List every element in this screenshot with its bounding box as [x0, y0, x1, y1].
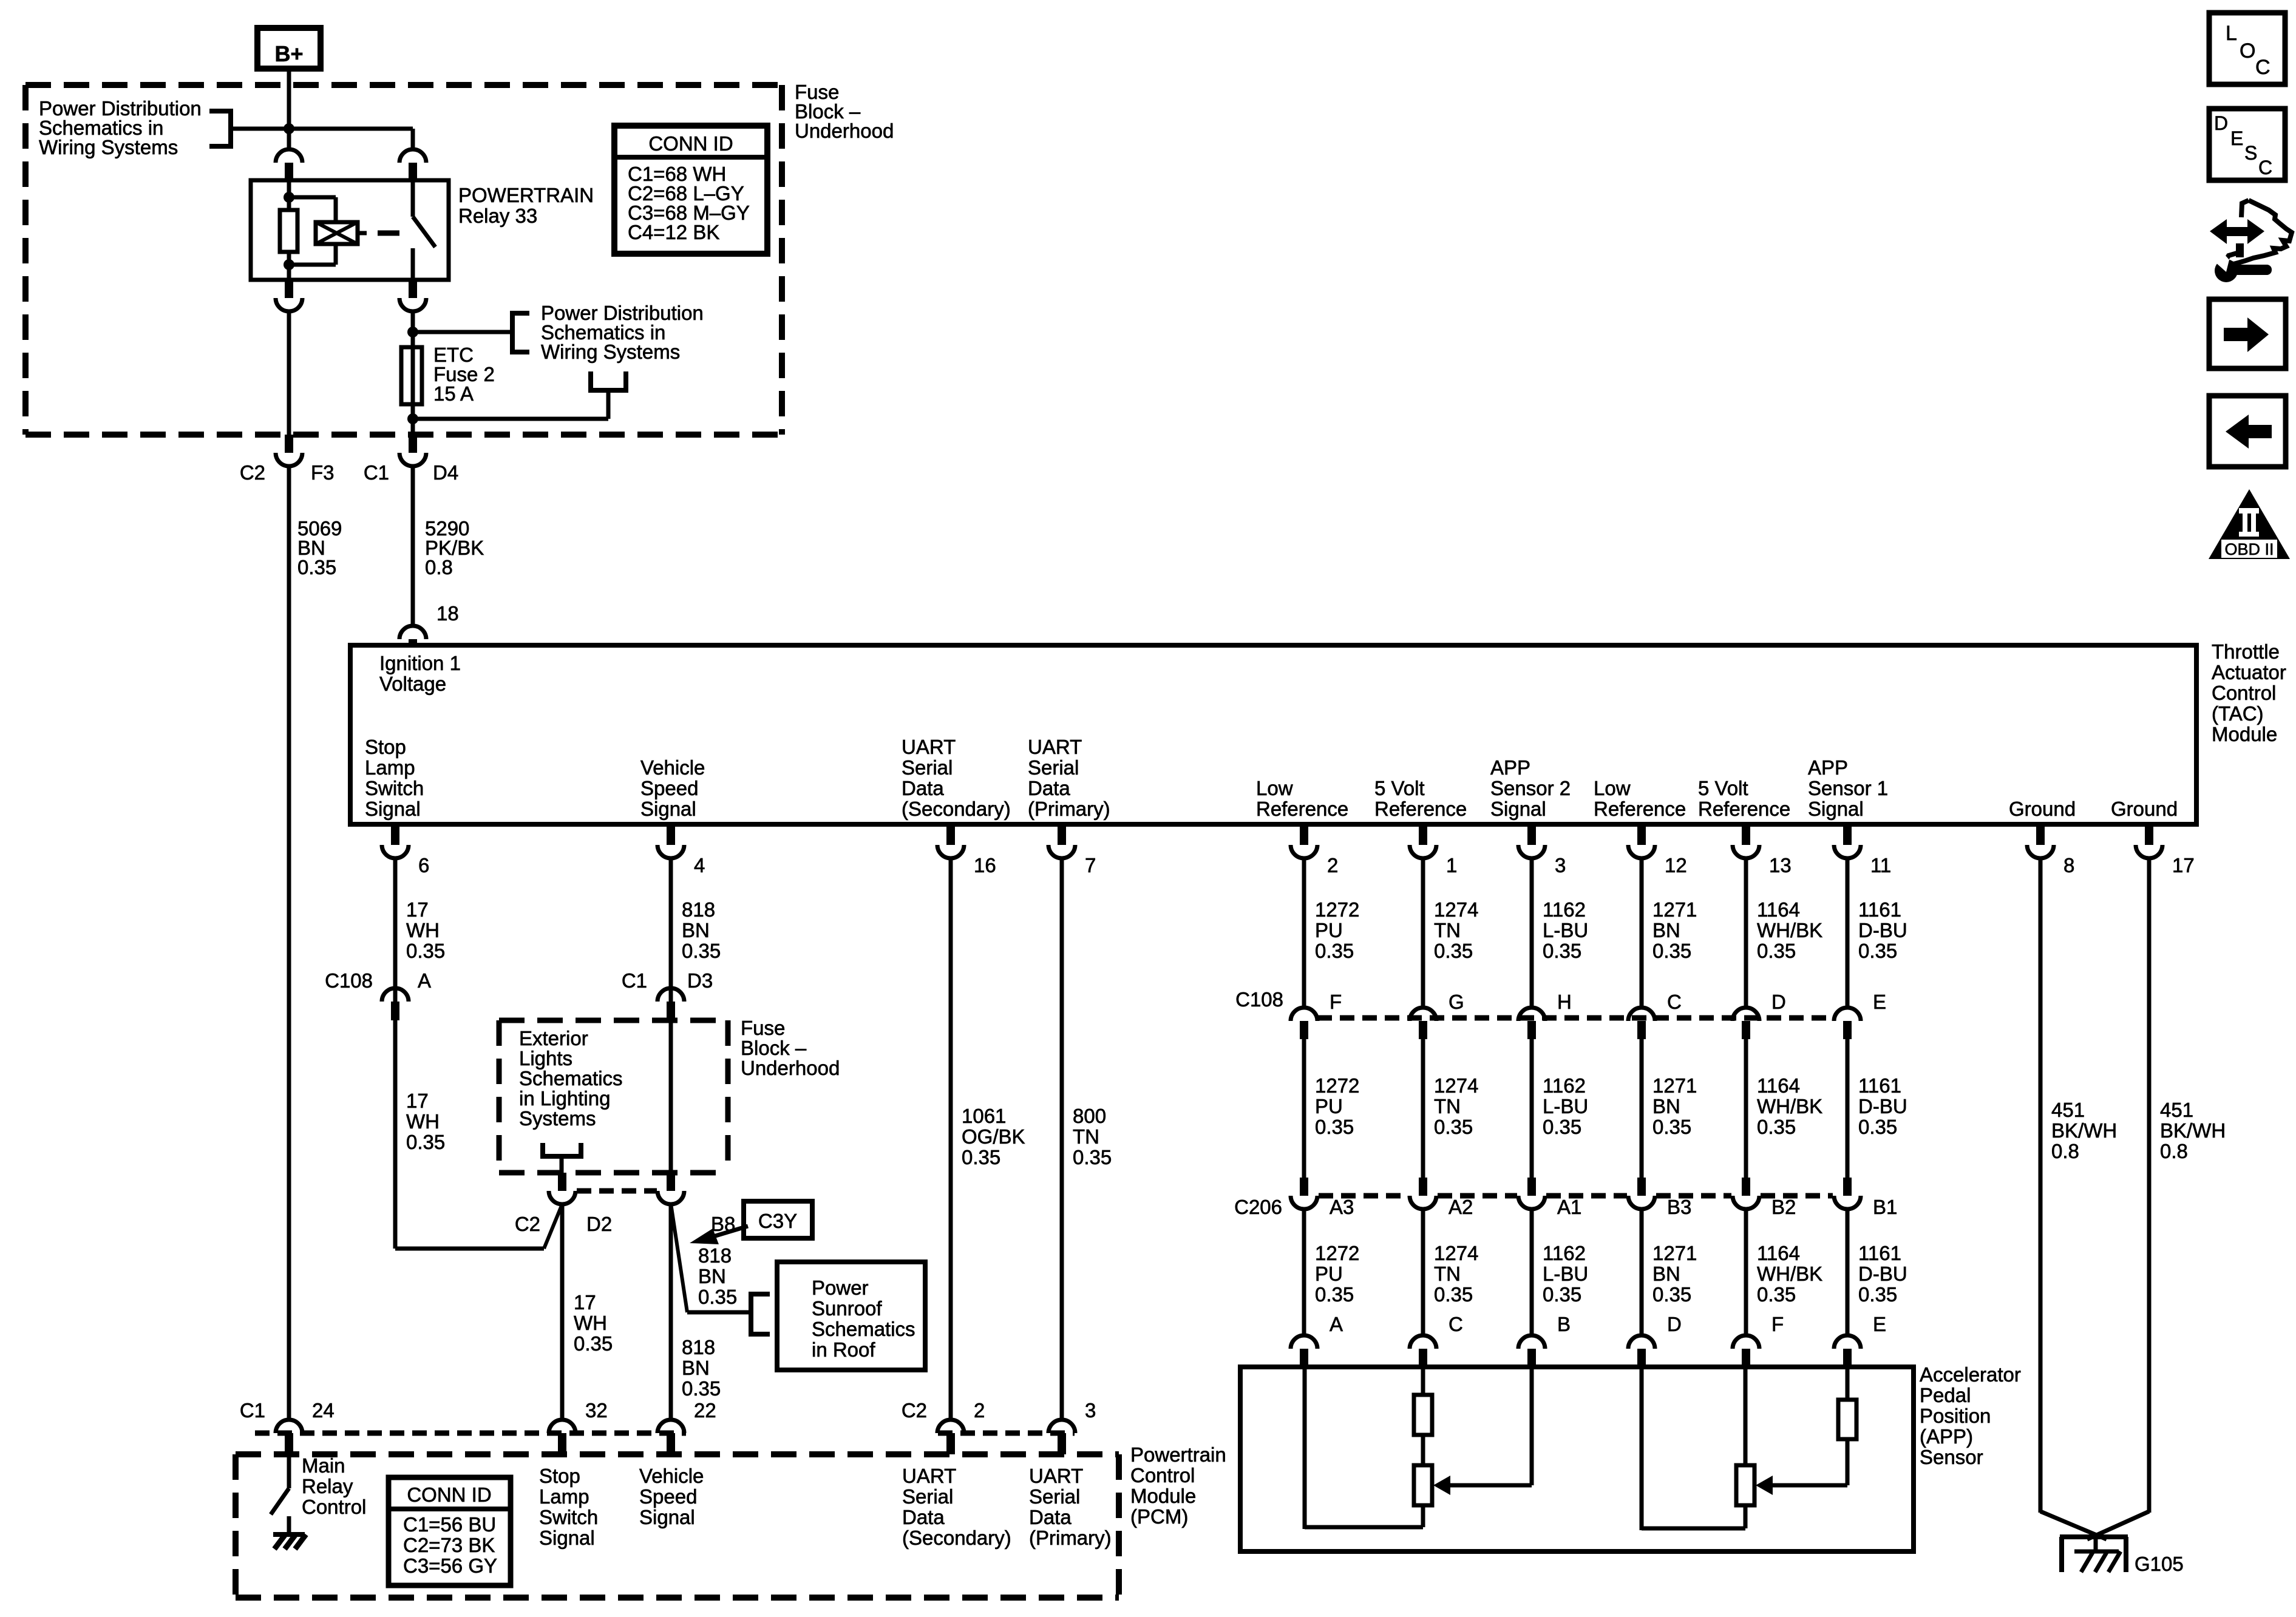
wire col 3043 to C206 — [1846, 1039, 1850, 1178]
svg-text:L: L — [2226, 22, 2237, 45]
svg-text:OBD II: OBD II — [2224, 540, 2274, 558]
svg-text:(TAC): (TAC) — [2212, 702, 2264, 725]
svg-text:11: 11 — [1870, 854, 1891, 876]
svg-text:A2: A2 — [1449, 1196, 1473, 1218]
svg-text:17: 17 — [406, 898, 429, 921]
svg-text:0.35: 0.35 — [1434, 1116, 1473, 1138]
svg-text:Reference: Reference — [1374, 798, 1467, 820]
svg-text:1161: 1161 — [1858, 1242, 1901, 1264]
svg-text:D-BU: D-BU — [1858, 1263, 1907, 1285]
svg-text:C108: C108 — [1235, 988, 1283, 1011]
svg-text:1164: 1164 — [1757, 898, 1800, 921]
svg-text:Data: Data — [1029, 1506, 1072, 1528]
svg-text:Throttle: Throttle — [2212, 640, 2280, 663]
svg-text:E: E — [1873, 1313, 1886, 1335]
svg-text:Signal: Signal — [1808, 798, 1864, 820]
svg-text:(Primary): (Primary) — [1029, 1527, 1112, 1549]
C3Y connector callout box — [744, 1201, 812, 1238]
svg-text:B3: B3 — [1667, 1196, 1691, 1218]
wire col 2344 to C108 — [1421, 857, 1425, 1009]
svg-text:1274: 1274 — [1434, 1242, 1478, 1264]
double arrow — [2223, 227, 2252, 236]
svg-text:0.35: 0.35 — [1757, 1283, 1796, 1306]
wire col 3043 to APP sensor — [1846, 1208, 1850, 1335]
power sunroof schematics box — [777, 1262, 925, 1370]
svg-text:0.35: 0.35 — [1434, 1283, 1473, 1306]
wire B8 branch to sunroof — [671, 1204, 687, 1312]
svg-text:2: 2 — [974, 1399, 985, 1422]
svg-text:D: D — [1667, 1313, 1682, 1335]
svg-text:POWERTRAIN: POWERTRAIN — [458, 184, 594, 206]
wire vehicle speed down to PCM pin 22 — [669, 1204, 673, 1420]
svg-text:Lights: Lights — [519, 1047, 572, 1070]
svg-text:1272: 1272 — [1315, 898, 1359, 921]
svg-text:Sunroof: Sunroof — [812, 1297, 882, 1320]
svg-text:B+: B+ — [274, 41, 303, 66]
icon DESC box — [2209, 109, 2285, 180]
bracket under middle note — [591, 371, 626, 390]
svg-text:(Secondary): (Secondary) — [902, 1527, 1011, 1549]
relay switch contact — [411, 180, 415, 217]
svg-text:Accelerator: Accelerator — [1920, 1363, 2021, 1386]
svg-text:1274: 1274 — [1434, 898, 1478, 921]
svg-text:UART: UART — [1028, 736, 1082, 758]
svg-text:0.35: 0.35 — [1315, 940, 1354, 962]
node junction to power distribution note — [407, 327, 418, 337]
svg-text:7: 7 — [1085, 854, 1096, 876]
svg-text:Module: Module — [2212, 723, 2277, 745]
svg-text:0.35: 0.35 — [682, 1377, 721, 1400]
svg-text:Serial: Serial — [902, 1485, 953, 1508]
battery feed B+ terminal — [257, 28, 321, 69]
wire col 2704 to C108 — [1640, 857, 1644, 1009]
wire col 2148 to C206 — [1302, 1039, 1306, 1178]
svg-text:1162: 1162 — [1543, 1074, 1586, 1097]
connector PCM pin 22 — [657, 1420, 684, 1433]
svg-text:C3Y: C3Y — [758, 1210, 797, 1232]
connector APP sensor pin F — [1733, 1335, 1759, 1349]
arrow from C3Y to wire — [712, 1226, 748, 1237]
svg-text:0.35: 0.35 — [406, 1131, 445, 1153]
svg-text:BK/WH: BK/WH — [2160, 1119, 2226, 1142]
svg-text:Lamp: Lamp — [539, 1485, 589, 1508]
connector C2 D2 out of exterior lights box — [558, 1173, 566, 1191]
svg-text:8: 8 — [2063, 854, 2074, 876]
svg-text:1272: 1272 — [1315, 1242, 1359, 1264]
svg-text:CONN ID: CONN ID — [648, 132, 733, 155]
svg-text:13: 13 — [1769, 854, 1792, 876]
svg-text:0.35: 0.35 — [1315, 1283, 1354, 1306]
svg-text:Position: Position — [1920, 1405, 1991, 1427]
svg-text:A: A — [1330, 1313, 1343, 1335]
svg-text:Data: Data — [902, 1506, 945, 1528]
svg-text:0.35: 0.35 — [1858, 1116, 1897, 1138]
APP sensor 1 circuit (right) — [1744, 1369, 1748, 1465]
TAC module box — [350, 645, 2196, 824]
svg-text:G105: G105 — [2135, 1553, 2184, 1575]
svg-text:(Primary): (Primary) — [1028, 798, 1110, 820]
connector TAC pin 13 — [1742, 827, 1750, 845]
wire relay left down to fuse box edge — [287, 311, 291, 435]
svg-text:Reference: Reference — [1698, 798, 1790, 820]
wire pin 4 down — [669, 857, 673, 1008]
resistor (relay internal) — [280, 210, 297, 252]
svg-text:D4: D4 — [433, 461, 458, 484]
svg-text:Switch: Switch — [539, 1506, 598, 1528]
connector APP sensor pin E — [1834, 1335, 1861, 1349]
svg-text:0.35: 0.35 — [574, 1332, 613, 1355]
svg-text:Systems: Systems — [519, 1107, 596, 1130]
svg-text:Lamp: Lamp — [365, 756, 415, 779]
connector C206 pin B2 — [1742, 1178, 1750, 1196]
relay POWERTRAIN Relay 33 box — [251, 180, 449, 280]
svg-text:0.35: 0.35 — [1652, 1283, 1691, 1306]
svg-text:Stop: Stop — [365, 736, 406, 758]
PCM dashed box — [236, 1451, 1119, 1457]
svg-text:Serial: Serial — [1028, 756, 1079, 779]
svg-text:Low: Low — [1256, 777, 1293, 799]
svg-text:Fuse: Fuse — [741, 1017, 785, 1039]
wire col 2344 to C206 — [1421, 1039, 1425, 1178]
svg-text:D-BU: D-BU — [1858, 919, 1907, 941]
connector C108 pin F — [1291, 1008, 1317, 1021]
svg-text:in Roof: in Roof — [812, 1338, 875, 1361]
connector C206 pin A3 — [1300, 1178, 1308, 1196]
fuse ETC Fuse 2 15A — [401, 347, 422, 404]
svg-text:PU: PU — [1315, 1263, 1343, 1285]
svg-text:24: 24 — [312, 1399, 335, 1422]
svg-text:16: 16 — [974, 854, 996, 876]
connector out of relay right pin 87 — [409, 280, 417, 298]
svg-text:in Lighting: in Lighting — [519, 1087, 610, 1110]
svg-text:Voltage: Voltage — [379, 673, 446, 695]
svg-text:C2: C2 — [240, 461, 265, 484]
connector C206 pin B1 — [1843, 1178, 1852, 1196]
svg-text:WH/BK: WH/BK — [1757, 919, 1822, 941]
svg-text:1: 1 — [1446, 854, 1457, 876]
svg-text:B2: B2 — [1771, 1196, 1796, 1218]
svg-text:0.35: 0.35 — [1315, 1116, 1354, 1138]
connector B8 out of fuse block — [667, 1173, 675, 1191]
svg-text:1274: 1274 — [1434, 1074, 1478, 1097]
svg-text:Wiring Systems: Wiring Systems — [39, 136, 178, 158]
connector PCM pin 24 — [276, 1420, 302, 1433]
wire C2 F3 long down to PCM — [287, 466, 291, 1420]
connector into TAC pin 18 — [399, 626, 426, 639]
svg-text:Underhood: Underhood — [795, 120, 894, 142]
svg-text:D-BU: D-BU — [1858, 1095, 1907, 1117]
svg-text:(Secondary): (Secondary) — [902, 798, 1011, 820]
connector PCM pin 2 — [937, 1420, 964, 1433]
svg-text:L-BU: L-BU — [1543, 1263, 1588, 1285]
svg-text:17: 17 — [2172, 854, 2195, 876]
connector C206 pin A2 — [1419, 1178, 1427, 1196]
bracket to power distribution note (second) — [512, 313, 529, 352]
connector C108 pin D — [1733, 1008, 1759, 1021]
CONN ID table (PCM) — [389, 1477, 511, 1585]
svg-text:WH/BK: WH/BK — [1757, 1095, 1822, 1117]
chassis ground (main relay) — [273, 1532, 305, 1537]
svg-text:B: B — [1557, 1313, 1571, 1335]
svg-text:1061: 1061 — [962, 1105, 1006, 1127]
svg-text:C2=73 BK: C2=73 BK — [403, 1534, 495, 1556]
svg-text:F3: F3 — [311, 461, 335, 484]
svg-text:WH: WH — [406, 919, 440, 941]
svg-text:0.35: 0.35 — [1543, 940, 1581, 962]
connector TAC pin 16 — [946, 827, 955, 845]
svg-text:Control: Control — [2212, 682, 2276, 704]
connector C108 pin E — [1834, 1008, 1861, 1021]
svg-text:Exterior: Exterior — [519, 1027, 588, 1049]
bracket to note — [209, 111, 231, 146]
bracket to power sunroof — [751, 1294, 770, 1334]
svg-text:BN: BN — [682, 1357, 710, 1379]
node junction B+ branch — [284, 123, 294, 134]
svg-text:Reference: Reference — [1594, 798, 1686, 820]
svg-text:WH: WH — [574, 1312, 607, 1334]
connector C206 pin A1 — [1527, 1178, 1536, 1196]
svg-text:1271: 1271 — [1652, 1242, 1697, 1264]
svg-text:D: D — [1771, 991, 1786, 1013]
svg-text:Ground: Ground — [2009, 798, 2076, 820]
connector C108 pin G — [1410, 1008, 1436, 1021]
svg-text:C4=12 BK: C4=12 BK — [628, 221, 719, 243]
APP sensor 2 circuit (left) — [1421, 1369, 1425, 1395]
wire pin 16 down to PCM — [949, 857, 953, 1420]
wire branch to relay switch side — [289, 127, 413, 131]
connector APP sensor pin D — [1628, 1335, 1655, 1349]
wire col 2523 to APP sensor — [1530, 1208, 1534, 1335]
svg-text:Reference: Reference — [1256, 798, 1348, 820]
svg-text:C: C — [2255, 56, 2271, 79]
wire col 2523 to C206 — [1530, 1039, 1534, 1178]
svg-text:0.35: 0.35 — [1757, 940, 1796, 962]
svg-text:C2: C2 — [515, 1213, 540, 1235]
svg-text:L-BU: L-BU — [1543, 1095, 1588, 1117]
svg-text:Sensor: Sensor — [1920, 1446, 1983, 1468]
svg-text:Signal: Signal — [1490, 798, 1546, 820]
svg-text:Control: Control — [302, 1496, 366, 1518]
svg-text:Sensor 1: Sensor 1 — [1808, 777, 1888, 799]
exterior lights dashed box (fuse block underhood) — [499, 1018, 728, 1023]
wire col 2876 to APP sensor — [1744, 1208, 1748, 1335]
svg-text:1272: 1272 — [1315, 1074, 1359, 1097]
svg-text:0.35: 0.35 — [297, 556, 336, 578]
svg-text:18: 18 — [436, 602, 459, 625]
svg-text:Schematics: Schematics — [812, 1318, 915, 1340]
svg-text:(APP): (APP) — [1920, 1425, 1973, 1448]
svg-text:Signal: Signal — [365, 798, 421, 820]
connector TAC pin 17 — [2145, 827, 2153, 845]
connector APP sensor pin C — [1410, 1335, 1436, 1349]
svg-text:D2: D2 — [586, 1213, 612, 1235]
connector into relay left pin 86 — [276, 149, 302, 163]
svg-text:Signal: Signal — [539, 1527, 595, 1549]
svg-text:Serial: Serial — [902, 756, 953, 779]
wire pin 8 ground down — [2039, 857, 2043, 1513]
svg-text:BN: BN — [1652, 919, 1680, 941]
resistor (APP sensor 1) — [1838, 1400, 1856, 1439]
wire col 2148 to C108 — [1302, 857, 1306, 1009]
svg-text:PU: PU — [1315, 919, 1343, 941]
svg-text:451: 451 — [2160, 1099, 2193, 1121]
wire B+ down — [287, 72, 291, 130]
connector C1 D3 (vehicle speed into fuse block) — [657, 988, 684, 1002]
svg-text:Stop: Stop — [539, 1465, 580, 1487]
connector out of fuse block C1 D4 — [409, 435, 417, 453]
connector C108 A (stop lamp) — [382, 988, 409, 1002]
svg-text:Data: Data — [1028, 777, 1070, 799]
svg-text:1161: 1161 — [1858, 1074, 1901, 1097]
svg-text:Control: Control — [1130, 1464, 1195, 1486]
svg-text:C206: C206 — [1234, 1196, 1282, 1218]
svg-text:APP: APP — [1808, 756, 1848, 779]
svg-text:0.35: 0.35 — [1543, 1116, 1581, 1138]
svg-text:F: F — [1330, 991, 1342, 1013]
connector TAC pin 4 — [667, 827, 675, 845]
svg-text:TN: TN — [1434, 919, 1461, 941]
svg-text:TN: TN — [1434, 1095, 1461, 1117]
svg-text:C2: C2 — [902, 1399, 927, 1422]
svg-text:Block –: Block – — [741, 1037, 807, 1059]
svg-text:C1=56 BU: C1=56 BU — [403, 1513, 496, 1536]
svg-text:1161: 1161 — [1858, 898, 1901, 921]
relay coil symbol — [316, 222, 358, 244]
wire col 2876 to C108 — [1744, 857, 1748, 1009]
svg-text:Actuator: Actuator — [2212, 661, 2286, 683]
svg-text:Serial: Serial — [1029, 1485, 1080, 1508]
connector TAC pin 1 — [1419, 827, 1427, 845]
connector C108 pin C — [1628, 1008, 1655, 1021]
svg-text:Relay: Relay — [302, 1475, 353, 1497]
svg-text:S: S — [2244, 142, 2257, 164]
svg-text:17: 17 — [406, 1090, 429, 1112]
svg-text:0.35: 0.35 — [1858, 1283, 1897, 1306]
svg-text:Ignition 1: Ignition 1 — [379, 652, 461, 674]
svg-text:0.8: 0.8 — [2051, 1140, 2079, 1162]
thumb piece — [2236, 243, 2244, 257]
svg-text:C: C — [1449, 1313, 1463, 1335]
svg-text:Main: Main — [302, 1454, 345, 1477]
svg-text:800: 800 — [1073, 1105, 1106, 1127]
svg-text:Powertrain: Powertrain — [1130, 1443, 1226, 1466]
CONN ID table (fuse block) — [614, 126, 767, 254]
svg-text:0.35: 0.35 — [406, 940, 445, 962]
wire col 2523 to C108 — [1530, 857, 1534, 1009]
svg-text:17: 17 — [574, 1291, 596, 1314]
svg-text:0.35: 0.35 — [682, 940, 721, 962]
svg-text:TN: TN — [1073, 1125, 1099, 1148]
svg-text:Pedal: Pedal — [1920, 1384, 1971, 1406]
ground wires converge — [2040, 1511, 2107, 1539]
svg-text:Vehicle: Vehicle — [640, 756, 705, 779]
svg-text:Power: Power — [812, 1276, 869, 1299]
svg-text:32: 32 — [585, 1399, 608, 1422]
connector APP sensor pin B — [1518, 1335, 1545, 1349]
wire low ref A down — [1303, 1369, 1307, 1529]
wire col 2148 to APP sensor — [1302, 1208, 1306, 1335]
svg-text:451: 451 — [2051, 1099, 2085, 1121]
svg-text:PU: PU — [1315, 1095, 1343, 1117]
wire col 3043 to C108 — [1846, 857, 1850, 1009]
svg-text:818: 818 — [682, 898, 715, 921]
svg-text:22: 22 — [694, 1399, 716, 1422]
svg-text:F: F — [1771, 1313, 1784, 1335]
wire col 2876 to C206 — [1744, 1039, 1748, 1178]
svg-text:O: O — [2240, 39, 2255, 63]
svg-text:Data: Data — [902, 777, 944, 799]
wire vehicle speed through box — [669, 1023, 673, 1173]
svg-text:C1: C1 — [622, 969, 647, 992]
wire pin 17 ground down — [2147, 857, 2152, 1513]
connector C108 pin H — [1518, 1008, 1545, 1021]
svg-text:BN: BN — [1652, 1095, 1680, 1117]
svg-text:UART: UART — [1029, 1465, 1083, 1487]
wire low ref D down — [1640, 1369, 1644, 1530]
connector TAC pin 6 — [391, 827, 399, 845]
svg-text:Low: Low — [1594, 777, 1631, 799]
svg-text:1162: 1162 — [1543, 898, 1586, 921]
connector C206 pin B3 — [1637, 1178, 1646, 1196]
svg-text:Relay 33: Relay 33 — [458, 205, 537, 227]
connector TAC pin 2 — [1300, 827, 1308, 845]
connector TAC pin 8 — [2036, 827, 2045, 845]
svg-text:0.35: 0.35 — [1652, 940, 1691, 962]
svg-text:Switch: Switch — [365, 777, 424, 799]
svg-text:3: 3 — [1555, 854, 1566, 876]
wire col 2704 to C206 — [1640, 1039, 1644, 1178]
svg-text:818: 818 — [682, 1336, 715, 1358]
svg-text:BK/WH: BK/WH — [2051, 1119, 2117, 1142]
svg-text:A: A — [418, 969, 431, 992]
svg-text:E: E — [1873, 991, 1886, 1013]
svg-text:1164: 1164 — [1757, 1074, 1800, 1097]
svg-text:Sensor 2: Sensor 2 — [1490, 777, 1571, 799]
svg-text:0.35: 0.35 — [1652, 1116, 1691, 1138]
svg-text:A3: A3 — [1330, 1196, 1354, 1218]
svg-text:TN: TN — [1434, 1263, 1461, 1285]
PCM connector dashed rows — [255, 1431, 686, 1436]
svg-text:(PCM): (PCM) — [1130, 1505, 1188, 1528]
svg-text:0.35: 0.35 — [1543, 1283, 1581, 1306]
svg-text:0.35: 0.35 — [1434, 940, 1473, 962]
connector TAC pin 11 — [1843, 827, 1852, 845]
ground symbol G105 — [2060, 1534, 2128, 1539]
svg-text:L-BU: L-BU — [1543, 919, 1588, 941]
svg-text:Speed: Speed — [640, 777, 698, 799]
svg-text:CONN ID: CONN ID — [407, 1483, 491, 1506]
svg-text:BN: BN — [698, 1265, 726, 1287]
connector TAC pin 3 — [1527, 827, 1536, 845]
svg-text:0.35: 0.35 — [1073, 1146, 1112, 1168]
svg-text:C1: C1 — [240, 1399, 265, 1422]
connector TAC pin 12 — [1637, 827, 1646, 845]
svg-text:BN: BN — [682, 919, 710, 941]
wire to bracket (third reference) — [413, 417, 608, 421]
svg-text:Ground: Ground — [2111, 798, 2178, 820]
svg-text:Signal: Signal — [640, 798, 696, 820]
icon forward arrow box — [2209, 299, 2286, 368]
svg-text:E: E — [2230, 127, 2243, 149]
svg-text:6: 6 — [418, 854, 429, 876]
wire fuse to box edge — [411, 419, 415, 435]
svg-text:0.8: 0.8 — [425, 556, 453, 578]
connector into relay right pin 30 — [399, 149, 426, 163]
svg-text:0.35: 0.35 — [962, 1146, 1000, 1168]
svg-text:1271: 1271 — [1652, 898, 1697, 921]
svg-text:Signal: Signal — [639, 1506, 695, 1528]
svg-text:0.8: 0.8 — [2160, 1140, 2188, 1162]
